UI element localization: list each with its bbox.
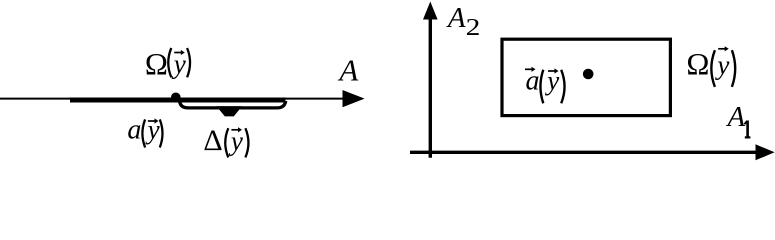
A1 axis arrowhead (756, 144, 775, 160)
rectangle region Omega(y) (502, 39, 670, 115)
svg-text:Ω: Ω (686, 46, 709, 81)
point a(y) dot (171, 93, 181, 103)
svg-text:y: y (171, 49, 186, 79)
svg-text:y: y (714, 50, 729, 80)
svg-text:a: a (127, 115, 141, 146)
underbrace Delta(y) (180, 101, 286, 108)
A1 axis horizontal line (410, 151, 757, 154)
thick segment Omega(y) on axis (70, 98, 286, 103)
svg-text:Δ: Δ (203, 124, 222, 157)
svg-text:A: A (726, 101, 746, 133)
svg-text:y: y (544, 65, 559, 95)
label Omega(y-vec) right (686, 46, 735, 87)
label a(y-vec) (127, 115, 162, 148)
svg-text:y: y (145, 115, 160, 145)
label Delta(y-vec) (203, 124, 248, 158)
svg-text:A: A (446, 2, 466, 34)
underbrace cusp (217, 106, 243, 116)
A2 axis vertical line (429, 16, 432, 158)
label Omega(y-vec) left (145, 46, 190, 81)
A2 axis arrowhead (423, 2, 438, 20)
axis A arrowhead (343, 90, 365, 107)
label A2 on vertical axis (446, 2, 480, 40)
label a-vec(y-vec) in rectangle (525, 65, 565, 103)
svg-text:2: 2 (466, 13, 481, 40)
svg-text:A: A (337, 52, 359, 87)
label A1 on horizontal axis (726, 101, 751, 138)
dot a(y) in rectangle (583, 69, 594, 80)
svg-text:Ω: Ω (145, 46, 168, 81)
axis A line (0, 98, 344, 100)
